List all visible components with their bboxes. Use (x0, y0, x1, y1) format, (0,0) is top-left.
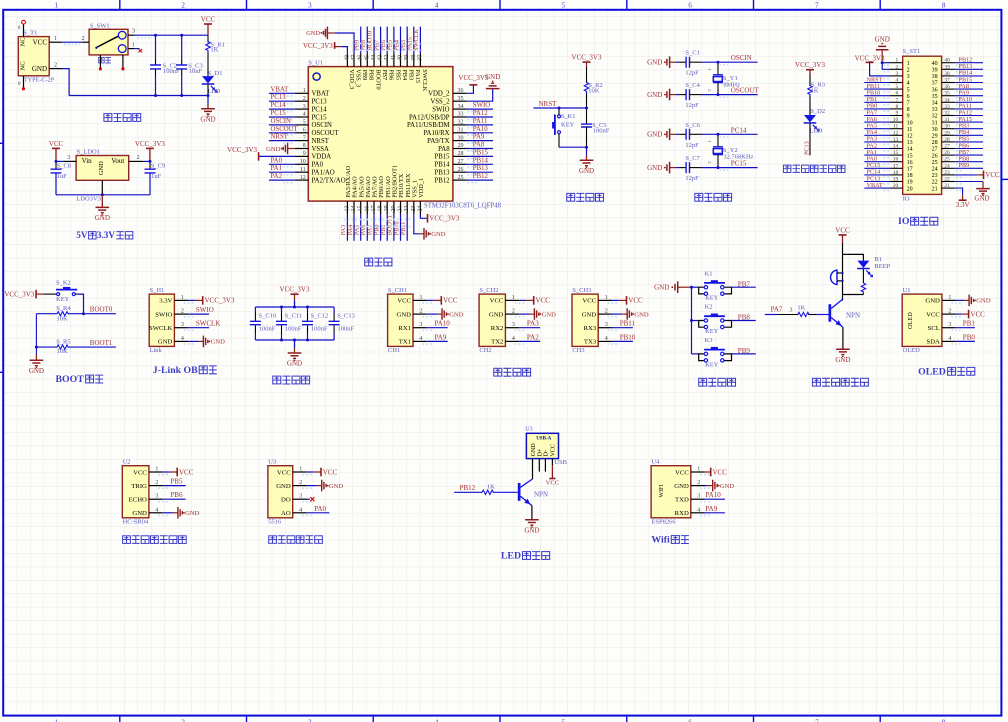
svg-text:S_C9: S_C9 (151, 163, 165, 170)
LDO regulator S_LDO1 (76, 149, 129, 203)
svg-text:D-: D- (544, 450, 550, 456)
svg-text:CH3: CH3 (572, 347, 584, 354)
svg-text:26: 26 (458, 167, 464, 173)
svg-text:1: 1 (299, 467, 302, 473)
ground GND at chip pin 35 VSS_2 (467, 73, 501, 101)
svg-text:PA3: PA3 (527, 320, 539, 328)
svg-text:S_U1: S_U1 (308, 59, 323, 66)
svg-text:PC13: PC13 (271, 94, 287, 101)
LDO GND pin wire and bottom rail (56, 180, 150, 195)
svg-text:GND: GND (158, 339, 173, 346)
svg-text:1: 1 (181, 295, 184, 301)
svg-text:5: 5 (907, 87, 910, 93)
svg-text:4: 4 (303, 112, 306, 118)
svg-text:VDD_3: VDD_3 (348, 69, 355, 89)
svg-text:GND: GND (287, 360, 302, 368)
svg-text:20: 20 (907, 186, 913, 192)
svg-text:31: 31 (932, 120, 938, 126)
svg-text:10: 10 (907, 120, 913, 126)
svg-text:47: 47 (351, 55, 357, 61)
svg-text:VCC_3V3: VCC_3V3 (280, 286, 310, 294)
svg-text:PB8: PB8 (368, 69, 375, 80)
svg-text:OLED: OLED (918, 366, 946, 377)
svg-text:GND: GND (524, 526, 539, 534)
ground GND at chip pin 23 VSS_1 (414, 214, 446, 239)
svg-text:3.3V: 3.3V (956, 201, 970, 209)
switch label 开关 (99, 58, 111, 64)
svg-text:3: 3 (181, 322, 184, 328)
svg-text:S_R5: S_R5 (56, 338, 70, 345)
svg-text:PA11/USB/DM: PA11/USB/DM (407, 122, 450, 129)
ground GND at chip pin 8 VSSA (266, 143, 295, 155)
svg-text:22: 22 (944, 177, 950, 183)
svg-text:4: 4 (435, 718, 439, 722)
svg-text:10: 10 (300, 159, 306, 165)
svg-text:S_C1: S_C1 (685, 50, 699, 57)
svg-text:PB14: PB14 (434, 162, 450, 169)
svg-text:VCC: VCC (49, 140, 64, 148)
svg-text:Vin: Vin (82, 157, 93, 165)
svg-text:GND: GND (32, 65, 47, 73)
svg-text:GND: GND (449, 311, 464, 318)
svg-text:PC13: PC13 (312, 99, 328, 106)
power port VCC at U1 pin 2 (956, 310, 986, 319)
svg-text:TRIG: TRIG (131, 483, 147, 490)
svg-text:9: 9 (303, 151, 306, 157)
chip bottom net label wires (340, 214, 407, 240)
svg-text:S_C13: S_C13 (337, 312, 355, 319)
svg-text:S_C7: S_C7 (685, 155, 700, 162)
svg-text:12: 12 (300, 175, 306, 181)
switch pin 3 and top rail wire (128, 28, 208, 37)
capacitor S_C6 12pF (676, 122, 718, 149)
svg-text:LED: LED (501, 551, 521, 562)
svg-text:VCC_3V3: VCC_3V3 (429, 215, 459, 223)
svg-text:PB9: PB9 (738, 347, 751, 355)
svg-text:12pF: 12pF (685, 142, 699, 149)
svg-text:5: 5 (562, 718, 566, 722)
junction dots LDO (55, 160, 152, 196)
svg-text:CH2: CH2 (479, 347, 491, 354)
svg-text:3: 3 (896, 71, 899, 77)
svg-text:34: 34 (944, 97, 950, 103)
svg-text:7: 7 (896, 97, 899, 103)
svg-text:GND: GND (654, 284, 669, 292)
svg-text:5516: 5516 (268, 518, 282, 525)
svg-text:100nF: 100nF (593, 127, 610, 134)
svg-text:0: 0 (18, 81, 21, 87)
capacitor S_C7 12pF (676, 155, 718, 182)
svg-text:40: 40 (944, 58, 950, 64)
LED S_D1 (202, 53, 223, 95)
svg-text:VCC: VCC (443, 297, 458, 305)
svg-text:TXD: TXD (675, 497, 689, 504)
svg-text:DO: DO (281, 497, 291, 504)
junction dots filter (280, 306, 309, 342)
svg-text:35: 35 (932, 94, 938, 100)
title 超声波测距模块 (123, 536, 187, 544)
svg-text:18: 18 (378, 206, 384, 212)
svg-text:100nF: 100nF (311, 325, 328, 332)
svg-text:18: 18 (907, 173, 913, 179)
connector S_CH3 (572, 287, 618, 354)
left rail wire BOOT and junction (35, 314, 38, 355)
svg-text:19: 19 (907, 180, 913, 186)
svg-text:1: 1 (896, 58, 899, 64)
svg-text:40: 40 (932, 61, 938, 67)
svg-text:S_C6: S_C6 (685, 122, 700, 129)
svg-text:10nF: 10nF (189, 68, 203, 75)
ground GND top of S_ST1 (875, 35, 890, 69)
svg-text:PA7: PA7 (771, 306, 783, 314)
power port VCC top of power circuit (201, 15, 216, 35)
svg-text:17: 17 (907, 167, 913, 173)
svg-text:BOOT1: BOOT1 (90, 339, 113, 347)
svg-text:1K: 1K (487, 483, 495, 490)
svg-text:VCC: VCC (397, 298, 411, 305)
svg-text:NC: NC (20, 37, 27, 46)
svg-text:VCC: VCC (33, 39, 48, 47)
svg-text:VCC: VCC (551, 444, 557, 456)
svg-text:SWCLK: SWCLK (149, 325, 173, 332)
svg-text:13: 13 (907, 140, 913, 146)
svg-text:14: 14 (893, 144, 899, 150)
svg-text:28: 28 (944, 137, 950, 143)
no-connect at U3 pin 3 (306, 497, 314, 501)
svg-text:100nF: 100nF (259, 325, 276, 332)
svg-text:CH1: CH1 (388, 347, 400, 354)
pin 0 bottom of S_T1 with no-ERC dot (18, 76, 25, 91)
svg-text:7: 7 (815, 1, 819, 9)
power port VCC at U4 pin 1 (703, 468, 727, 477)
svg-text:21: 21 (398, 206, 404, 212)
svg-text:PA9/TX: PA9/TX (427, 138, 450, 145)
svg-text:12pF: 12pF (685, 175, 699, 182)
svg-text:GND: GND (582, 311, 597, 318)
svg-text:3: 3 (67, 155, 70, 161)
svg-text:PB11: PB11 (400, 222, 407, 236)
capacitor S_C10 100nF (250, 307, 276, 340)
svg-text:11: 11 (300, 167, 306, 173)
svg-text:3: 3 (697, 494, 700, 500)
svg-text:VSS_2: VSS_2 (430, 99, 450, 106)
LED inside alarm branch (857, 261, 872, 277)
connector U2 (122, 459, 169, 526)
svg-text:27: 27 (458, 159, 464, 165)
ground GND keys circuit (654, 281, 691, 293)
svg-text:2: 2 (82, 36, 85, 42)
svg-text:8: 8 (896, 104, 899, 110)
power VCC at S_ST1 pin 23 (955, 171, 1000, 180)
svg-text:PC14: PC14 (731, 126, 747, 134)
svg-text:VCC_3V3: VCC_3V3 (205, 297, 235, 305)
svg-text:19: 19 (384, 206, 390, 212)
ground GND for S_C1 (647, 56, 676, 68)
power port VCC alarm (835, 226, 850, 254)
power port VCC at U2 pin 1 (163, 468, 194, 477)
svg-text:4: 4 (420, 336, 423, 342)
svg-text:16: 16 (907, 160, 913, 166)
svg-text:40: 40 (398, 55, 404, 61)
title 晶振电路 (695, 193, 732, 201)
svg-text:GND: GND (276, 483, 291, 490)
svg-text:7: 7 (907, 101, 910, 107)
svg-text:17: 17 (371, 205, 377, 211)
wire key bottom to cap bottom (559, 146, 587, 148)
LDO pin 2 Vout wire (129, 155, 150, 162)
svg-text:PB10: PB10 (620, 333, 636, 341)
svg-text:1: 1 (907, 61, 910, 67)
svg-text:GND: GND (835, 356, 850, 364)
svg-text:39: 39 (404, 55, 410, 61)
ground GND at S_ST1 pin 22 (955, 182, 990, 203)
svg-text:VBAT: VBAT (312, 91, 331, 98)
LED S_D2 (804, 108, 825, 134)
wire/net label PA3 at S_CH2 pin 3 (519, 320, 540, 328)
capacitor S_C3 10nF (176, 35, 203, 95)
svg-text:30: 30 (944, 124, 950, 130)
svg-text:KEY: KEY (705, 328, 719, 335)
svg-text:2: 2 (299, 480, 302, 486)
bottom rail wire of power circuit (69, 84, 208, 96)
svg-text:RXD: RXD (675, 510, 689, 517)
ground at S_CH2 pin 2 (519, 308, 556, 320)
svg-text:VSS_3: VSS_3 (354, 69, 361, 87)
svg-text:PA2/TX/AO: PA2/TX/AO (312, 177, 346, 184)
title LED灯电路 (501, 551, 550, 562)
svg-text:21: 21 (932, 186, 938, 192)
svg-text:BEEP: BEEP (874, 263, 890, 270)
svg-text:29: 29 (932, 134, 938, 140)
svg-text:VCC_3V3: VCC_3V3 (572, 54, 602, 62)
svg-text:PB11: PB11 (620, 320, 636, 328)
resistor S_R3 1K (808, 81, 825, 115)
svg-text:VCC: VCC (179, 468, 194, 476)
wire/net label PB8 for key K2 (732, 314, 756, 322)
svg-text:2: 2 (155, 480, 158, 486)
chip top net label wires (353, 27, 420, 54)
svg-text:S_T1: S_T1 (23, 29, 37, 36)
svg-text:PA9: PA9 (435, 333, 447, 341)
svg-text:22: 22 (404, 205, 410, 211)
chip pins left side 1-12 with names (295, 88, 346, 184)
svg-text:33: 33 (932, 107, 938, 113)
power port VCC_3V3 reset circuit (572, 54, 602, 83)
svg-text:PA10: PA10 (705, 491, 721, 499)
svg-text:LED: LED (810, 128, 823, 135)
svg-text:8: 8 (907, 107, 910, 113)
svg-text:VCC: VCC (628, 297, 643, 305)
svg-text:4: 4 (907, 81, 910, 87)
svg-text:0: 0 (18, 25, 21, 31)
svg-text:4: 4 (435, 1, 439, 9)
svg-text:1: 1 (155, 467, 158, 473)
svg-text:31: 31 (458, 127, 464, 133)
svg-text:3: 3 (790, 307, 793, 313)
svg-text:PB13: PB13 (434, 170, 450, 177)
svg-text:OSCOUT: OSCOUT (312, 130, 340, 137)
svg-text:D+: D+ (538, 448, 544, 456)
svg-text:45: 45 (364, 55, 370, 61)
capacitor S_C11 100nF (276, 307, 302, 340)
svg-text:5V: 5V (76, 230, 88, 240)
svg-text:PA10: PA10 (435, 320, 451, 328)
svg-text:1K: 1K (797, 305, 805, 312)
svg-text:33: 33 (458, 112, 464, 118)
svg-text:S_C4: S_C4 (685, 82, 700, 89)
svg-text:22: 22 (932, 180, 938, 186)
svg-text:PC15: PC15 (731, 160, 747, 168)
svg-text:39: 39 (932, 68, 938, 74)
pin 2 GND of S_T1 and wire down to bottom rail (49, 63, 69, 96)
svg-text:23: 23 (944, 170, 950, 176)
wire/net label OSCIN (718, 54, 758, 64)
wire/net label PB7 for key K1 (732, 280, 756, 288)
svg-text:29: 29 (944, 130, 950, 136)
svg-text:S_H1: S_H1 (150, 287, 165, 294)
svg-text:KEY: KEY (561, 121, 575, 128)
svg-text:PB1: PB1 (963, 320, 976, 328)
svg-text:SWCLK: SWCLK (413, 29, 420, 51)
svg-text:PA12/USB/DP: PA12/USB/DP (409, 114, 450, 121)
connector S_T1 TYPE-C (18, 29, 54, 83)
svg-text:S_C8: S_C8 (57, 163, 71, 170)
wire/net label PA2 at S_CH2 pin 4 (519, 333, 540, 341)
svg-text:6: 6 (688, 1, 692, 9)
svg-text:20: 20 (893, 183, 899, 189)
svg-text:PA10: PA10 (473, 126, 488, 133)
svg-text:OLED: OLED (907, 312, 914, 329)
svg-text:3: 3 (948, 322, 951, 328)
svg-text:VBAT: VBAT (271, 86, 290, 93)
svg-text:36: 36 (944, 84, 950, 90)
svg-text:37: 37 (944, 78, 950, 84)
svg-text:14: 14 (351, 206, 357, 212)
svg-text:1: 1 (303, 88, 306, 94)
svg-text:S_C12: S_C12 (311, 312, 329, 319)
svg-text:PB9: PB9 (959, 162, 970, 169)
svg-text:3: 3 (132, 28, 135, 34)
crystal S_Y1 8MHz (707, 62, 740, 94)
title IO拓展口 (898, 216, 938, 227)
svg-text:5: 5 (562, 1, 566, 9)
svg-text:S_D1: S_D1 (208, 70, 223, 77)
switch bottom pins with no-ERC dots (99, 55, 125, 71)
title OLED显示屏 (918, 366, 975, 377)
svg-text:3: 3 (512, 322, 515, 328)
S_ST1 pins right 40-21 (932, 58, 963, 193)
svg-text:HC-SR04: HC-SR04 (123, 518, 149, 525)
connector U4 (651, 459, 711, 526)
svg-text:VCC: VCC (133, 469, 147, 476)
svg-text:VSSA: VSSA (312, 146, 329, 153)
svg-text:17: 17 (893, 163, 899, 169)
svg-text:100nF: 100nF (285, 325, 302, 332)
svg-text:VDD_1: VDD_1 (418, 178, 425, 198)
svg-text:6: 6 (907, 94, 910, 100)
svg-text:25: 25 (458, 175, 464, 181)
power 3.3V at S_ST1 pin 21 (955, 188, 970, 209)
svg-text:AO: AO (281, 510, 291, 517)
svg-text:29: 29 (458, 143, 464, 149)
svg-text:3.3V: 3.3V (97, 230, 115, 240)
svg-text:S_CH2: S_CH2 (479, 287, 498, 294)
svg-text:K3: K3 (705, 337, 713, 344)
svg-text:30: 30 (458, 135, 464, 141)
svg-text:32.768KHz: 32.768KHz (723, 154, 753, 161)
svg-text:GND: GND (647, 91, 662, 99)
svg-text:15: 15 (893, 150, 899, 156)
svg-text:4: 4 (948, 336, 951, 342)
svg-text:4: 4 (181, 336, 184, 342)
svg-text:SCL: SCL (928, 325, 940, 332)
wire/net label PB9 for key K3 (732, 347, 756, 355)
svg-text:GND: GND (431, 231, 446, 238)
svg-text:12: 12 (893, 130, 899, 136)
svg-text:PA1/AO: PA1/AO (312, 170, 335, 177)
svg-text:SDA: SDA (927, 339, 941, 346)
svg-text:4: 4 (155, 507, 158, 513)
crystal S_Y2 32.768KHz (707, 134, 754, 167)
ground GND of LDO circuit (95, 195, 110, 222)
svg-text:32: 32 (932, 114, 938, 120)
svg-text:5: 5 (303, 120, 306, 126)
svg-text:GND: GND (579, 167, 594, 175)
ground GND filter circuit (287, 340, 302, 368)
svg-text:S_C10: S_C10 (259, 312, 277, 319)
svg-text:PB14: PB14 (473, 157, 489, 164)
svg-text:GND: GND (397, 311, 412, 318)
svg-text:16: 16 (364, 206, 370, 212)
svg-text:SWIO: SWIO (473, 102, 490, 109)
resistor S_R4 10K and BOOT0 label (36, 305, 116, 323)
svg-text:3: 3 (420, 322, 423, 328)
net label NRST and wire (534, 100, 587, 108)
switch pin 2 left (83, 41, 90, 43)
svg-text:PB7: PB7 (738, 280, 751, 288)
title 串口电路 (494, 368, 531, 376)
title 5V转3.3V电路 (76, 230, 133, 240)
svg-text:S_SW1: S_SW1 (90, 23, 110, 30)
ground at U4 pin 2 (705, 480, 735, 492)
wire/net label PA10 at S_CH1 pin 3 (427, 320, 451, 328)
main chip S_U1 STM32F103C8T6_LQFP48 body (308, 59, 501, 209)
svg-text:S_R4: S_R4 (56, 305, 71, 312)
svg-text:1: 1 (948, 295, 951, 301)
keys bus wire (690, 286, 693, 354)
wire/net label PB5 at U2 pin 2 (163, 478, 186, 486)
capacitor S_C5 100nF (581, 108, 610, 147)
wire/net label PC14 (718, 126, 758, 137)
svg-text:2: 2 (420, 309, 423, 315)
svg-text:K1: K1 (705, 270, 713, 277)
chip pins right side 36-25 with names (407, 88, 467, 184)
svg-text:IO: IO (903, 196, 910, 203)
svg-text:PB9: PB9 (361, 69, 368, 80)
svg-text:2: 2 (948, 309, 951, 315)
svg-text:2: 2 (605, 309, 608, 315)
svg-text:1: 1 (55, 1, 59, 9)
svg-text:PB0: PB0 (963, 333, 976, 341)
emitter wire and ground GND LED circuit (524, 506, 539, 535)
svg-text:GND: GND (531, 443, 537, 457)
svg-text:SWCLK: SWCLK (196, 320, 221, 328)
title 滤波电路 (273, 376, 310, 384)
ground GND for S_C6 (647, 129, 676, 141)
key K1 (692, 270, 732, 301)
svg-text:SWIO: SWIO (196, 306, 214, 314)
svg-text:19: 19 (893, 177, 899, 183)
